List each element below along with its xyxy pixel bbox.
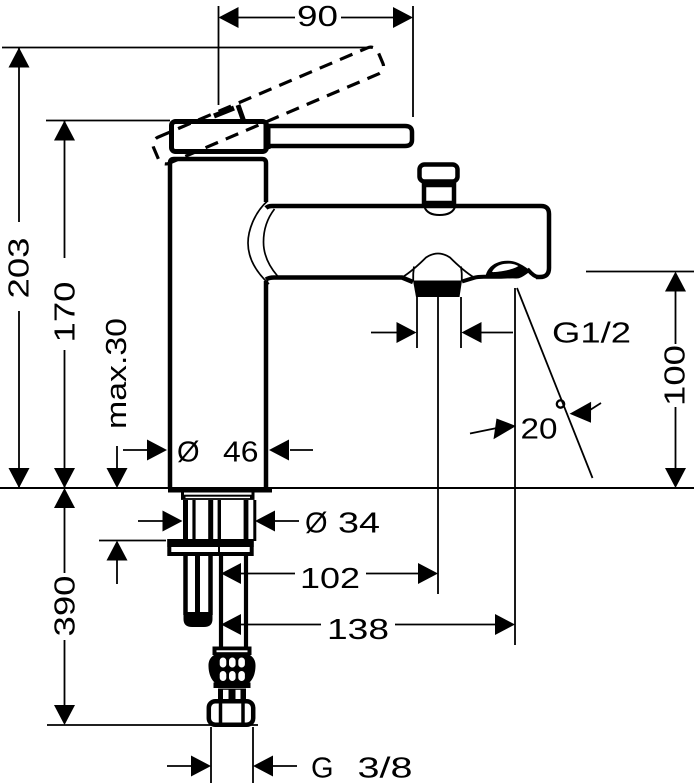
threaded shank [186, 500, 255, 541]
svg-text:138: 138 [327, 614, 389, 646]
deck line [0, 487, 694, 489]
dimension 203 [2, 48, 367, 489]
hose hex nut [209, 701, 253, 725]
svg-text:Ø: Ø [177, 437, 200, 469]
hose collar [213, 647, 252, 656]
svg-text:G1/2: G1/2 [552, 318, 631, 350]
20 degree slant arrow [570, 402, 592, 423]
mounting flange [181, 495, 255, 500]
aerator black band [413, 281, 462, 298]
outlet crescent [486, 261, 529, 278]
column base plate [168, 488, 272, 493]
hose corrugation barrel [208, 655, 255, 683]
dimension diameter 46 [123, 449, 313, 451]
hose tube [221, 556, 246, 648]
dimension 102 [241, 297, 438, 594]
svg-text:Ø: Ø [305, 508, 328, 540]
spout lip right segment with outlet tip [462, 270, 539, 281]
dashed lever (raised position) [151, 45, 387, 167]
handle joint lines [265, 124, 270, 149]
svg-text:20: 20 [521, 414, 558, 446]
diverter knob [420, 165, 458, 182]
aerator dome [402, 254, 474, 281]
svg-text:3/8: 3/8 [358, 753, 413, 784]
fillet curves at spout junction [248, 201, 278, 284]
mounting nut [169, 541, 251, 554]
spout body outline [266, 206, 549, 277]
svg-text:203: 203 [4, 238, 36, 299]
svg-text:46: 46 [223, 437, 259, 469]
svg-text:G: G [311, 753, 334, 784]
hose crimp [218, 689, 246, 700]
svg-text:100: 100 [660, 345, 692, 406]
dimension 100 [586, 272, 694, 469]
dimension diameter 34 [138, 520, 299, 522]
svg-text:max.30: max.30 [101, 318, 133, 429]
20 degree leader arrow [470, 428, 497, 434]
dimension max.30 [99, 446, 166, 584]
body column right lower edge [264, 281, 269, 489]
handle hub [172, 122, 267, 152]
svg-text:102: 102 [300, 563, 360, 595]
svg-text:170: 170 [50, 282, 82, 343]
pull rod [186, 556, 211, 615]
dimension 170 [46, 121, 170, 489]
svg-text:390: 390 [50, 576, 82, 637]
spout bottom lip left segment [266, 278, 413, 283]
20 degree slant line [517, 288, 593, 478]
dimension 390 [47, 508, 258, 725]
dimension 90 [219, 6, 414, 117]
dimension 138 [241, 288, 515, 645]
pivot bold dashes [214, 105, 244, 122]
dimension G 3/8 [167, 727, 297, 783]
dimension G 1/2 [371, 297, 513, 348]
lever bar [266, 126, 412, 146]
svg-text:34: 34 [338, 508, 380, 540]
body column [170, 159, 266, 489]
svg-text:90: 90 [297, 1, 338, 33]
